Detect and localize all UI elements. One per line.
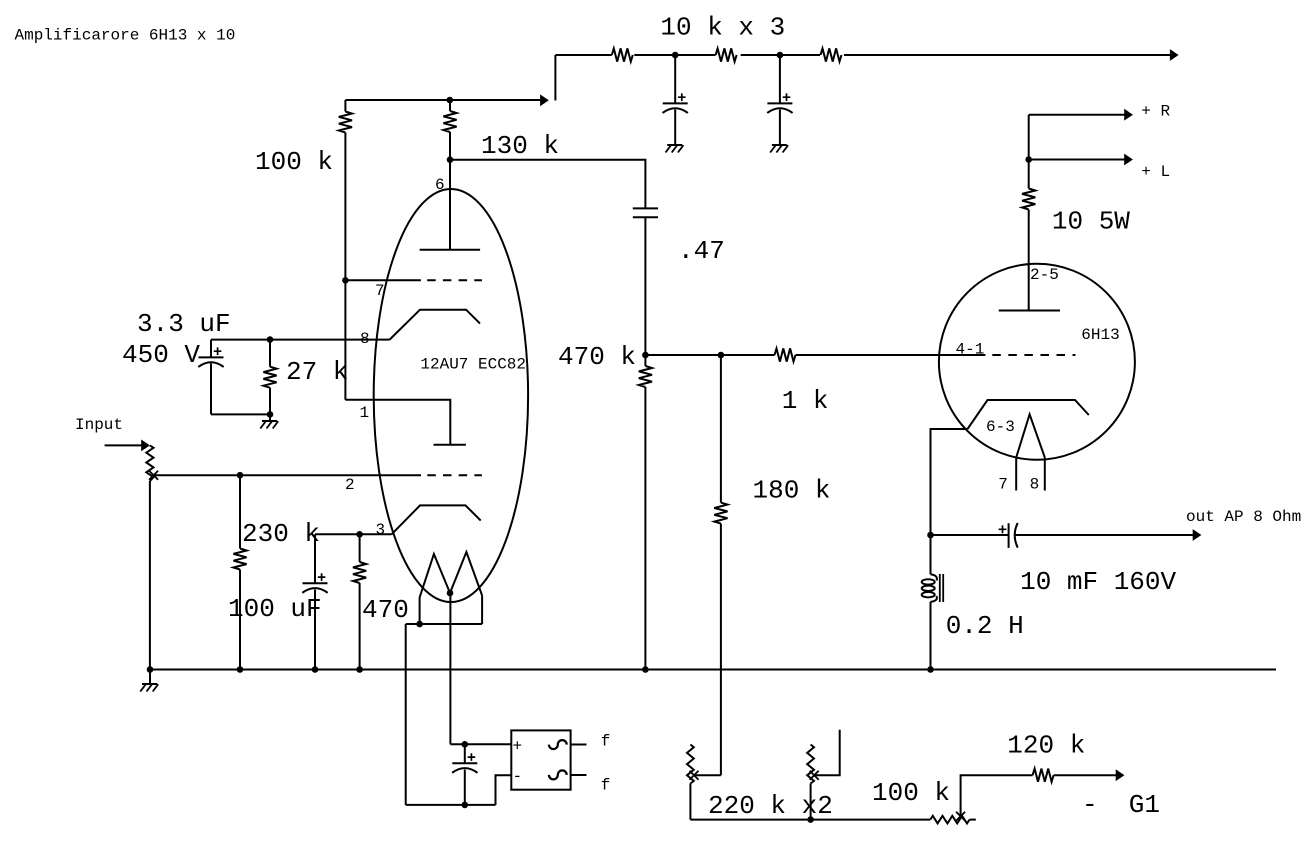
- wire f output 2: [571, 774, 587, 776]
- potentiometer 100k: [930, 816, 969, 824]
- label 0.2 H: [946, 611, 1024, 641]
- wire 100k to node7: [344, 133, 346, 281]
- label 470: [362, 595, 409, 625]
- junction rail-inductor: [927, 666, 934, 673]
- wire input pot bottom: [149, 481, 151, 670]
- wire pot-right wiper: [814, 730, 840, 776]
- wire cap 3.3uF top lead: [210, 340, 212, 358]
- svg-text:10 k x 3: 10 k x 3: [660, 13, 785, 43]
- svg-text:3: 3: [376, 521, 386, 539]
- svg-text:180 k: 180 k: [753, 476, 831, 506]
- wire 230k bottom lead: [239, 570, 241, 670]
- plate 6H13 (pins 2-5): [999, 310, 1060, 312]
- svg-text:f: f: [601, 776, 611, 794]
- resistor 10 5W: [1022, 189, 1035, 210]
- label 6H13: [1081, 326, 1119, 344]
- label Input: [75, 416, 123, 434]
- wire 180k lower lead: [720, 524, 722, 776]
- tube 6H13 envelope: [939, 264, 1135, 460]
- junction heater cap top: [462, 741, 469, 748]
- svg-text:2-5: 2-5: [1030, 266, 1059, 284]
- wiper X pot right: [810, 771, 819, 780]
- wire 100k top bus: [345, 99, 449, 101]
- svg-text:12AU7 ECC82: 12AU7 ECC82: [420, 356, 526, 374]
- resistor 130k plate V2: [443, 111, 456, 132]
- wire gnd stub 27k: [269, 414, 271, 421]
- svg-text:6-3: 6-3: [986, 418, 1015, 436]
- resistor 120k: [1033, 769, 1054, 782]
- junction heater left: [416, 621, 423, 628]
- svg-text:130 k: 130 k: [481, 131, 559, 161]
- wire node7 down to pin1 corner: [344, 280, 346, 399]
- svg-text:6: 6: [435, 176, 445, 194]
- transformer winding 1: [549, 740, 567, 749]
- arrow +L: [1124, 154, 1133, 166]
- wire 470k node to 1k: [645, 354, 774, 356]
- wire ground rail: [150, 669, 1276, 671]
- wire 470k lead top: [644, 355, 646, 366]
- pin label 4-1: [956, 341, 985, 359]
- label 230 k: [242, 519, 320, 549]
- wire f output 1: [571, 744, 587, 746]
- potentiometer 220k right: [807, 745, 814, 784]
- label + L: [1141, 163, 1170, 181]
- arrow +R: [1124, 109, 1133, 121]
- pin label 1: [360, 404, 370, 422]
- ground cap1: [666, 145, 684, 153]
- label 220 k x2: [708, 791, 833, 821]
- svg-text:Amplificarore 6H13 x 10: Amplificarore 6H13 x 10: [15, 27, 236, 45]
- label .47: [678, 236, 725, 266]
- pin label 7 6H13: [998, 476, 1008, 494]
- svg-text:1: 1: [360, 404, 370, 422]
- wire 130k node to cap .47: [450, 160, 645, 209]
- capacitor 100uF (electrolytic): [302, 573, 327, 593]
- wire 470R bottom lead: [359, 583, 361, 670]
- pin label 3: [376, 521, 386, 539]
- wire 27k bottom lead: [269, 388, 271, 415]
- ground 27k: [260, 421, 278, 429]
- resistor 1k: [775, 348, 796, 361]
- svg-text:2: 2: [345, 476, 355, 494]
- wire pot-left wiper: [694, 774, 721, 776]
- wire 230k top lead: [239, 475, 241, 548]
- ground cap2: [770, 145, 788, 153]
- svg-text:100 k: 100 k: [872, 778, 950, 808]
- junction 100k tops: [447, 97, 454, 104]
- wire cap .47 to 470k node: [644, 217, 646, 355]
- resistor 27k: [263, 367, 276, 388]
- inductor 0.2H: [922, 574, 944, 602]
- svg-text:7: 7: [375, 282, 385, 300]
- svg-text:450 V: 450 V: [122, 340, 200, 370]
- junction rail-cap1: [672, 52, 679, 59]
- svg-text:f: f: [601, 733, 611, 751]
- junction rail-cap2: [777, 52, 784, 59]
- svg-text:+: +: [513, 738, 523, 756]
- wire 180k upper lead: [720, 355, 722, 503]
- capacitor filter 1 (electrolytic): [663, 93, 688, 113]
- junction rail-100uF: [312, 666, 319, 673]
- heater 12AU7 W: [420, 552, 483, 598]
- svg-text:3.3 uF: 3.3 uF: [137, 309, 231, 339]
- label 10 k x 3: [660, 13, 785, 43]
- wire heater bottom bus: [406, 623, 482, 625]
- arrow input: [141, 440, 150, 452]
- wire heater left leg: [419, 598, 421, 625]
- svg-text:4-1: 4-1: [956, 341, 985, 359]
- wire inductor to rail: [930, 602, 932, 670]
- label out AP 8 Ohm: [1186, 508, 1301, 526]
- transformer box: [511, 730, 570, 789]
- junction 27k bottom: [267, 411, 274, 418]
- label 180 k: [753, 476, 831, 506]
- wire cap2 lead bottom: [779, 110, 781, 146]
- wire heater mid drop: [449, 593, 451, 744]
- wire 100k top lead: [344, 100, 346, 112]
- svg-text:230 k: 230 k: [242, 519, 320, 549]
- wire 120k to G1: [1054, 774, 1116, 776]
- title text: [15, 27, 236, 45]
- svg-text:220 k x2: 220 k x2: [708, 791, 833, 821]
- junction rail-inputpot: [147, 666, 154, 673]
- wire 470k to ground rail: [644, 387, 646, 670]
- wire +L: [1029, 159, 1125, 161]
- arrow B+ rail end: [1170, 49, 1179, 61]
- capacitor filter 2 (electrolytic): [767, 93, 792, 113]
- junction 27k top: [267, 336, 274, 343]
- label 100 k: [255, 147, 333, 177]
- wiper X pot left: [690, 771, 699, 780]
- potentiometer 220k left: [687, 745, 694, 784]
- wire 130k bottom to junction: [449, 132, 451, 160]
- junction +L branch: [1025, 156, 1032, 163]
- pin label 2: [345, 476, 355, 494]
- grid V1 dashed: [427, 474, 482, 476]
- wiper X 100k pot: [956, 812, 965, 821]
- ground rail symbol: [140, 684, 158, 692]
- svg-text:Input: Input: [75, 416, 123, 434]
- svg-text:10 mF 160V: 10 mF 160V: [1020, 567, 1176, 597]
- resistor 470k: [639, 366, 652, 387]
- wire 10 5W to plate: [1028, 210, 1030, 311]
- wire 470R top lead: [359, 534, 361, 562]
- svg-text:10 5W: 10 5W: [1052, 207, 1130, 237]
- grid 6H13 dashed: [992, 354, 1075, 356]
- wire cap 100uF top lead: [314, 534, 316, 583]
- wire grid V1 (pin 2): [154, 474, 421, 476]
- wire cap1 lead top: [674, 55, 676, 103]
- label + R: [1141, 103, 1170, 121]
- wire 100k pot wiper riser: [961, 775, 1033, 816]
- transformer winding 2: [549, 770, 567, 779]
- pin label 8 6H13: [1030, 476, 1040, 494]
- label 10 mF 160V: [1020, 567, 1176, 597]
- wire heater right leg: [481, 596, 483, 625]
- wiper X input pot: [149, 471, 158, 480]
- wire cap 3.3uF bottom lead: [210, 364, 212, 415]
- pin label 8: [360, 330, 370, 348]
- wire out node to inductor: [930, 535, 932, 574]
- wire 130k top lead: [449, 100, 451, 111]
- wire pin1 plate: [345, 400, 450, 445]
- svg-text:+ R: + R: [1141, 103, 1170, 121]
- grid V2 wire (pin 7): [345, 279, 421, 281]
- label 120 k: [1007, 731, 1085, 761]
- svg-text:0.2 H: 0.2 H: [946, 611, 1024, 641]
- wire out to cap: [931, 534, 1009, 536]
- cathode V1 (pin 3): [392, 505, 481, 534]
- resistor 10k (3 of 3): [821, 48, 842, 61]
- svg-text:100 k: 100 k: [255, 147, 333, 177]
- label 27 k: [286, 357, 348, 387]
- grid V2 dashed: [427, 279, 482, 281]
- wire gnd stub rail: [149, 670, 151, 685]
- wire 1k to 6H13 grid: [796, 354, 986, 356]
- wire pin8 to 27k node: [270, 339, 390, 341]
- junction grid V2 / plate V1 node: [342, 277, 349, 284]
- svg-text:out AP 8 Ohm: out AP 8 Ohm: [1186, 508, 1301, 526]
- svg-text:120 k: 120 k: [1007, 731, 1085, 761]
- wire pot-left bottom: [689, 784, 691, 820]
- svg-text:6H13: 6H13: [1081, 326, 1119, 344]
- resistor 10k (2 of 3): [716, 48, 737, 61]
- resistor 470 cathode: [353, 562, 366, 583]
- wire pot-right bottom: [810, 784, 812, 820]
- pin label 6-3: [986, 418, 1015, 436]
- cathode 6H13 (pins 6-3): [968, 400, 1089, 429]
- wire 100k pot stub: [970, 819, 976, 821]
- label 12AU7 ECC82: [420, 356, 526, 374]
- junction 180k node: [718, 352, 725, 359]
- label - G1: [1082, 790, 1160, 820]
- label 10 5W: [1052, 207, 1130, 237]
- junction rail-230k: [237, 666, 244, 673]
- junction pot-right bus: [807, 816, 814, 823]
- wire heater - riser: [496, 775, 512, 805]
- label f 2: [601, 776, 611, 794]
- resistor 100k plate V1: [339, 112, 352, 133]
- capacitor 3.3uF 450V (electrolytic): [198, 347, 223, 367]
- svg-text:470 k: 470 k: [558, 342, 636, 372]
- pin label 2-5: [1030, 266, 1059, 284]
- wire 27k top lead: [269, 340, 271, 367]
- label 3.3 uF: [137, 309, 231, 339]
- wire heater + feed: [450, 743, 511, 745]
- junction heater mid: [447, 590, 454, 597]
- wire cap-27k bottom bus: [211, 413, 270, 415]
- wire +R drop: [1028, 115, 1030, 189]
- plate V2 (pin 6): [420, 249, 481, 251]
- wire bias bottom bus: [690, 819, 930, 821]
- junction rail-470R: [356, 666, 363, 673]
- wire B+ feed from 100k node: [450, 99, 540, 101]
- wire heater cap bottom lead: [464, 770, 466, 805]
- plate V1 (pin 1): [434, 444, 466, 446]
- junction 230k top: [237, 472, 244, 479]
- svg-text:+ L: + L: [1141, 163, 1170, 181]
- resistor 10k (1 of 3): [612, 48, 633, 61]
- svg-text:100 uF: 100 uF: [228, 594, 322, 624]
- junction 470R top: [356, 531, 363, 538]
- wire +R: [1029, 114, 1125, 116]
- junction 470k-rail: [642, 666, 649, 673]
- label 130 k: [481, 131, 559, 161]
- label 100 k bias: [872, 778, 950, 808]
- transformer - label: [513, 768, 523, 786]
- junction heater cap bottom: [462, 802, 469, 809]
- label 470 k: [558, 342, 636, 372]
- svg-text:- G1: - G1: [1082, 790, 1160, 820]
- svg-text:470: 470: [362, 595, 409, 625]
- svg-text:.47: .47: [678, 236, 725, 266]
- svg-text:7: 7: [998, 476, 1008, 494]
- resistor 230k: [233, 549, 246, 570]
- wire pin3: [315, 533, 392, 535]
- label 1 k: [782, 386, 829, 416]
- arrow B+ feed: [540, 94, 549, 106]
- label 450 V: [122, 340, 200, 370]
- svg-text:-: -: [513, 768, 523, 786]
- wire B+ rail drop: [554, 55, 556, 101]
- wire heater - bus: [406, 804, 496, 806]
- svg-text:1 k: 1 k: [782, 386, 829, 416]
- svg-text:27 k: 27 k: [286, 357, 348, 387]
- wire B+ rail: [555, 54, 1170, 56]
- wire heater left drop: [405, 624, 407, 805]
- resistor 180k: [714, 503, 727, 524]
- heater 6H13: [1016, 414, 1045, 490]
- label f 1: [601, 733, 611, 751]
- junction out node: [927, 532, 934, 539]
- wire 27k node to cap: [211, 339, 270, 341]
- pin label 7: [375, 282, 385, 300]
- wire out cap to arrow: [1015, 534, 1193, 536]
- wire cathode to out node: [931, 429, 968, 535]
- potentiometer input: [146, 445, 153, 481]
- transformer + label: [513, 738, 523, 756]
- capacitor 10mF 160V: [999, 523, 1018, 548]
- pin label 6: [435, 176, 445, 194]
- label 100 uF: [228, 594, 322, 624]
- arrow G1: [1116, 769, 1125, 781]
- capacitor heater filter (electrolytic): [452, 753, 477, 773]
- wire heater cap top lead: [464, 744, 466, 763]
- junction 470k node: [642, 352, 649, 359]
- wire cap 100uF bottom lead: [314, 590, 316, 670]
- tube 12AU7 envelope: [374, 189, 528, 602]
- svg-text:8: 8: [1030, 476, 1040, 494]
- cathode V2 (pin 8): [390, 310, 480, 340]
- wire cap1 lead bottom: [674, 110, 676, 146]
- wire input: [105, 444, 142, 446]
- arrow out: [1193, 529, 1202, 541]
- wire cap2 lead top: [779, 55, 781, 103]
- wire pin6 plate lead: [449, 160, 451, 250]
- capacitor .47: [633, 208, 658, 217]
- junction 130k node: [447, 156, 454, 163]
